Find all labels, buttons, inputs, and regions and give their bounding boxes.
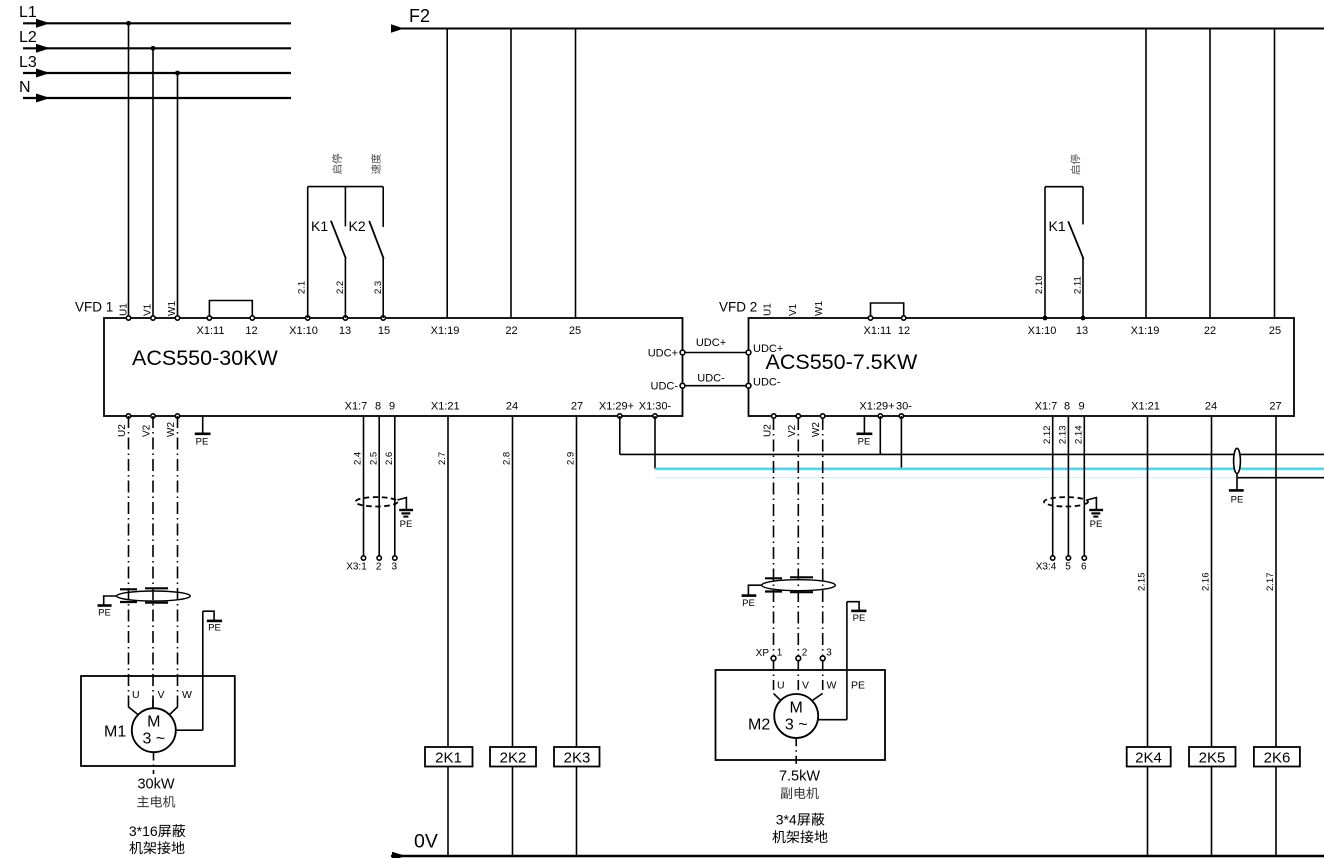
VFD U2 drive ACS550-7.5KW xyxy=(719,300,1294,417)
svg-text:2K3: 2K3 xyxy=(564,749,591,766)
wire L3 to W1 xyxy=(177,73,179,318)
svg-text:22: 22 xyxy=(505,325,517,337)
net 0V xyxy=(391,831,1324,858)
pin X3:3 xyxy=(392,556,398,573)
relay coil 2K5 xyxy=(1189,747,1236,767)
svg-text:27: 27 xyxy=(571,401,583,413)
relay coil 2K2 xyxy=(490,747,536,767)
relay coil 2K4 xyxy=(1127,747,1171,767)
ground PE shield X3A xyxy=(398,498,414,531)
cable shield X3B xyxy=(1044,497,1088,506)
svg-text:2.1: 2.1 xyxy=(297,281,308,294)
svg-text:VFD 2: VFD 2 xyxy=(719,300,757,315)
svg-text:PE: PE xyxy=(98,608,111,619)
svg-text:F2: F2 xyxy=(409,6,430,26)
svg-text:N: N xyxy=(19,79,31,96)
wire W2 cable core M2 xyxy=(822,418,824,656)
wire motor lead U M2 xyxy=(773,661,775,694)
pin X1:29+ VFD1 xyxy=(599,401,634,419)
svg-text:13: 13 xyxy=(1076,325,1088,337)
jumper X1:11-12 VFD2 xyxy=(871,303,904,318)
label fudianji xyxy=(781,787,819,799)
svg-text:PE: PE xyxy=(853,613,866,624)
wire contact feed rail xyxy=(308,186,384,188)
svg-text:ACS550-7.5KW: ACS550-7.5KW xyxy=(766,350,918,374)
net L2 xyxy=(19,29,291,53)
wire motor PE lead xyxy=(176,729,203,731)
wire W2 cable core xyxy=(177,416,179,707)
pin XP:3 xyxy=(820,648,832,661)
cable shield M2 xyxy=(762,577,836,592)
svg-text:PE: PE xyxy=(1231,495,1244,506)
label frame ground M1 xyxy=(129,841,184,854)
node L1 tap xyxy=(126,21,131,26)
wire V2 cable core M2 xyxy=(797,418,799,656)
svg-text:3*16: 3*16 xyxy=(129,823,158,839)
wire pair return faint xyxy=(655,477,1237,479)
svg-text:U: U xyxy=(777,680,785,692)
wire L1 to U1 xyxy=(128,23,130,318)
ground PE shield M2 xyxy=(742,585,762,609)
svg-text:6: 6 xyxy=(1081,562,1087,573)
pin X3:1 xyxy=(346,556,367,573)
svg-text:W2: W2 xyxy=(811,422,822,437)
motor M1 frame xyxy=(81,676,235,766)
svg-text:L3: L3 xyxy=(19,54,37,71)
label qiting VFD2 xyxy=(1070,155,1080,175)
wire 24 column VFD2 xyxy=(1211,416,1213,856)
wire motor centerline M2 xyxy=(795,738,797,766)
wire X1:21 column xyxy=(447,416,449,856)
svg-text:2.10: 2.10 xyxy=(1034,276,1045,295)
svg-text:2.14: 2.14 xyxy=(1074,426,1085,445)
svg-text:X1:30-: X1:30- xyxy=(639,401,672,413)
ground PE motor M2 xyxy=(847,602,867,624)
pin V2 VFD2 xyxy=(787,414,801,437)
svg-text:ACS550-30KW: ACS550-30KW xyxy=(132,346,278,370)
svg-text:U1: U1 xyxy=(118,303,129,316)
wire 8 to X3:5 xyxy=(1067,416,1069,556)
wire pair return xyxy=(1237,477,1324,479)
contact K1 VFD1 xyxy=(311,187,346,318)
svg-text:2: 2 xyxy=(802,648,808,659)
pin XP:1 xyxy=(756,648,783,661)
svg-text:U1: U1 xyxy=(763,303,774,316)
wire 27 column VFD2 xyxy=(1275,416,1277,856)
svg-text:30kW: 30kW xyxy=(137,777,174,793)
pin X3:5 xyxy=(1065,556,1071,573)
svg-text:PE: PE xyxy=(196,437,209,448)
node 13 VFD2 xyxy=(1076,316,1088,337)
label sudu xyxy=(371,154,381,174)
pin U2 xyxy=(117,414,131,437)
svg-text:X1:21: X1:21 xyxy=(431,401,460,413)
svg-text:7.5kW: 7.5kW xyxy=(779,769,820,785)
motor M1 xyxy=(132,708,176,752)
svg-text:UDC-: UDC- xyxy=(753,377,781,389)
svg-text:2.15: 2.15 xyxy=(1137,573,1148,592)
svg-text:UDC-: UDC- xyxy=(697,373,725,385)
svg-text:15: 15 xyxy=(378,325,390,337)
motor M2 frame xyxy=(716,670,886,760)
svg-text:K2: K2 xyxy=(349,218,366,234)
svg-text:13: 13 xyxy=(339,325,351,337)
pin X1:11 VFD2 xyxy=(864,316,892,337)
svg-text:2.16: 2.16 xyxy=(1201,573,1212,592)
label qiting VFD1 xyxy=(332,154,342,174)
pin XP:2 xyxy=(796,648,808,661)
wire F2 to VFD1 X1:19 xyxy=(446,29,448,319)
relay coil 2K1 xyxy=(425,747,473,767)
motor M2 xyxy=(774,694,818,738)
svg-text:V2: V2 xyxy=(142,424,153,437)
cable shield M1 xyxy=(117,588,191,602)
wire X1:10 riser VFD2 xyxy=(1044,187,1046,318)
jumper X1:11-12 xyxy=(209,301,252,319)
cable shield X3A xyxy=(356,497,398,506)
svg-text:22: 22 xyxy=(1204,325,1216,337)
node L3 tap xyxy=(175,71,180,76)
pin 15 xyxy=(378,316,390,337)
svg-text:2.17: 2.17 xyxy=(1265,573,1276,592)
svg-text:25: 25 xyxy=(1269,325,1281,337)
svg-text:V2: V2 xyxy=(787,424,798,437)
ground PE pair shield xyxy=(1229,474,1244,506)
svg-text:2.7: 2.7 xyxy=(437,452,448,465)
ground PE VFD2 xyxy=(857,416,873,448)
wire motor lead V xyxy=(152,700,154,709)
svg-text:2.6: 2.6 xyxy=(384,452,395,465)
svg-text:2: 2 xyxy=(376,562,382,573)
wire 24 column xyxy=(512,416,514,856)
svg-text:X1:29+: X1:29+ xyxy=(599,401,634,413)
relay coil 2K3 xyxy=(554,747,600,767)
svg-text:U: U xyxy=(132,689,140,701)
svg-text:2K6: 2K6 xyxy=(1264,749,1291,766)
svg-text:X1:21: X1:21 xyxy=(1131,401,1160,413)
ground PE shield M1 xyxy=(98,596,117,619)
wire motor PE lead M2 xyxy=(818,719,847,721)
pin X3:4 xyxy=(1036,556,1057,573)
svg-text:X1:11: X1:11 xyxy=(864,325,892,337)
wire UDC+ link xyxy=(648,337,784,360)
svg-text:2.12: 2.12 xyxy=(1042,426,1053,445)
wire contact feed rail VFD2 xyxy=(1045,186,1083,188)
svg-text:V: V xyxy=(802,680,809,692)
wire F2 to VFD2 25 xyxy=(1274,29,1276,319)
pin X1:29+ VFD2 xyxy=(859,401,894,419)
svg-text:24: 24 xyxy=(1205,401,1217,413)
svg-text:8: 8 xyxy=(375,401,381,413)
svg-text:3: 3 xyxy=(826,648,832,659)
svg-text:1: 1 xyxy=(777,648,783,659)
svg-text:0V: 0V xyxy=(414,831,438,853)
svg-text:X1:29+: X1:29+ xyxy=(859,401,894,413)
svg-text:24: 24 xyxy=(506,401,518,413)
svg-text:2K1: 2K1 xyxy=(435,749,462,766)
svg-text:UDC+: UDC+ xyxy=(696,337,726,349)
pin U2 VFD2 xyxy=(762,414,776,437)
svg-text:PE: PE xyxy=(208,623,221,634)
pin W2 VFD2 xyxy=(811,414,825,437)
svg-text:9: 9 xyxy=(389,401,395,413)
pin W2 xyxy=(166,414,180,437)
wire F2 to VFD1 25 xyxy=(575,29,577,319)
svg-text:M: M xyxy=(147,714,160,731)
wire 27 column xyxy=(576,416,578,856)
label zhudianji xyxy=(137,796,175,808)
svg-text:2.3: 2.3 xyxy=(373,281,384,294)
wire motor lead U xyxy=(129,707,139,715)
svg-text:X3:1: X3:1 xyxy=(346,562,367,573)
svg-text:VFD 1: VFD 1 xyxy=(75,300,113,315)
pin W1 xyxy=(167,301,180,321)
wire X1:7 to X3:1 xyxy=(363,416,365,556)
pin X3:6 xyxy=(1081,556,1087,573)
svg-text:M2: M2 xyxy=(748,717,770,734)
svg-text:2.2: 2.2 xyxy=(335,281,346,294)
svg-text:3*4: 3*4 xyxy=(776,812,797,828)
svg-text:2.5: 2.5 xyxy=(368,452,379,465)
wire X1:21 column VFD2 xyxy=(1147,416,1149,856)
wire motor centerline xyxy=(153,753,155,775)
svg-text:2K4: 2K4 xyxy=(1135,749,1162,766)
svg-text:K1: K1 xyxy=(1049,218,1066,234)
pin U1 xyxy=(118,303,130,320)
svg-text:2.8: 2.8 xyxy=(502,452,513,465)
net N xyxy=(19,79,291,103)
VFD U1 drive ACS550-30KW xyxy=(75,300,683,417)
svg-text:2.4: 2.4 xyxy=(353,452,364,465)
wire U2 cable core M2 xyxy=(773,418,775,656)
contact K2 VFD1 xyxy=(349,187,384,318)
svg-text:3: 3 xyxy=(392,562,398,573)
svg-text:UDC-: UDC- xyxy=(651,381,679,393)
svg-text:3 ~: 3 ~ xyxy=(785,717,808,734)
svg-text:W: W xyxy=(182,689,192,701)
wire UDC- link xyxy=(651,373,781,393)
svg-text:2.11: 2.11 xyxy=(1073,276,1084,294)
ground PE shield X3B xyxy=(1087,498,1103,531)
svg-text:12: 12 xyxy=(898,325,910,337)
svg-text:30-: 30- xyxy=(896,401,912,413)
svg-text:PE: PE xyxy=(851,680,865,692)
svg-text:X1:19: X1:19 xyxy=(431,325,460,337)
svg-text:UDC+: UDC+ xyxy=(753,343,783,355)
pin V2 xyxy=(142,414,156,437)
relay coil 2K6 xyxy=(1254,747,1300,767)
wire 9 to X3:3 xyxy=(394,416,396,556)
ground PE VFD1 xyxy=(195,416,211,448)
wire F2 to VFD2 X1:19 xyxy=(1145,29,1147,319)
svg-text:X1:7: X1:7 xyxy=(345,401,368,413)
svg-text:U2: U2 xyxy=(762,424,773,437)
svg-text:2K2: 2K2 xyxy=(500,749,527,766)
wire motor lead W xyxy=(169,707,177,715)
svg-text:8: 8 xyxy=(1064,401,1070,413)
wire F2 to VFD1 22 xyxy=(510,29,512,319)
pin V1 xyxy=(143,303,156,320)
pin 12 VFD2 xyxy=(898,316,910,337)
svg-text:PE: PE xyxy=(400,519,413,530)
cable shield pair xyxy=(1234,448,1241,473)
svg-text:X1:7: X1:7 xyxy=(1035,401,1058,413)
ground PE motor M1 xyxy=(203,611,222,633)
net L1 xyxy=(19,4,291,28)
svg-text:27: 27 xyxy=(1269,401,1281,413)
wire shield drain to motor PE M2 xyxy=(846,602,848,720)
svg-text:PE: PE xyxy=(742,598,755,609)
contact K1 VFD2 xyxy=(1049,187,1084,318)
wire 8 to X3:2 xyxy=(378,416,380,556)
svg-text:2K5: 2K5 xyxy=(1199,749,1226,766)
svg-text:PE: PE xyxy=(1090,519,1103,530)
svg-text:U2: U2 xyxy=(117,424,128,437)
wire L2 to V1 xyxy=(152,48,154,318)
svg-text:X1:10: X1:10 xyxy=(1028,325,1057,337)
svg-text:2.13: 2.13 xyxy=(1058,426,1069,445)
svg-text:W: W xyxy=(827,680,837,692)
svg-text:PE: PE xyxy=(858,437,871,448)
pin 13 xyxy=(339,316,351,337)
svg-text:X1:10: X1:10 xyxy=(289,325,318,337)
svg-text:X1:19: X1:19 xyxy=(1131,325,1160,337)
wire U2 cable core xyxy=(128,416,130,707)
wire F2 to VFD2 22 xyxy=(1209,29,1211,319)
svg-text:UDC+: UDC+ xyxy=(648,348,678,360)
svg-text:25: 25 xyxy=(569,325,581,337)
wire X1:29+ drop VFD1 xyxy=(619,416,621,454)
node L2 tap xyxy=(151,46,156,51)
wire 9 to X3:6 xyxy=(1083,416,1085,556)
svg-text:12: 12 xyxy=(245,325,257,337)
svg-text:XP: XP xyxy=(756,648,770,659)
label frame ground M2 xyxy=(772,830,827,843)
svg-text:5: 5 xyxy=(1065,562,1071,573)
svg-text:X3:4: X3:4 xyxy=(1036,562,1057,573)
node X1:10 VFD2 xyxy=(1028,316,1057,337)
svg-text:W2: W2 xyxy=(166,422,177,437)
svg-text:X1:11: X1:11 xyxy=(197,325,225,337)
svg-text:2.9: 2.9 xyxy=(566,452,577,465)
net L3 xyxy=(19,54,291,78)
svg-text:W1: W1 xyxy=(814,301,825,316)
wire 30- drop VFD2 xyxy=(900,416,902,469)
wire V2 cable core xyxy=(152,416,154,708)
svg-text:9: 9 xyxy=(1078,401,1084,413)
svg-text:K1: K1 xyxy=(311,218,328,234)
svg-text:V1: V1 xyxy=(788,303,799,316)
wire X1:29+ drop VFD2 xyxy=(879,416,881,454)
wire X1:10 riser xyxy=(307,187,309,318)
wire 29+ interlink xyxy=(620,453,1324,455)
pin 12 xyxy=(245,316,257,337)
pin X1:30- VFD1 xyxy=(639,401,672,419)
svg-text:V1: V1 xyxy=(143,303,154,316)
svg-text:L1: L1 xyxy=(19,4,37,21)
svg-text:V: V xyxy=(158,689,165,701)
svg-text:M: M xyxy=(790,700,803,717)
svg-text:W1: W1 xyxy=(167,301,178,316)
wire motor lead W M2 xyxy=(822,661,824,694)
wire motor lead V M2 xyxy=(797,661,799,695)
pin X1:11 xyxy=(197,316,225,337)
svg-text:L2: L2 xyxy=(19,29,37,46)
wire shield drain to motor PE xyxy=(202,611,204,730)
wire X1:7 to X3:4 xyxy=(1052,416,1054,556)
svg-text:3 ~: 3 ~ xyxy=(142,731,165,748)
svg-text:M1: M1 xyxy=(104,724,126,741)
wire 30- interlink highlighted xyxy=(655,467,1324,470)
pin X3:2 xyxy=(376,556,382,573)
pin X1:10 xyxy=(289,316,318,337)
wire X1:30- drop VFD1 xyxy=(654,416,656,469)
pin 30- VFD2 xyxy=(896,401,912,419)
net F2 xyxy=(391,6,1324,33)
